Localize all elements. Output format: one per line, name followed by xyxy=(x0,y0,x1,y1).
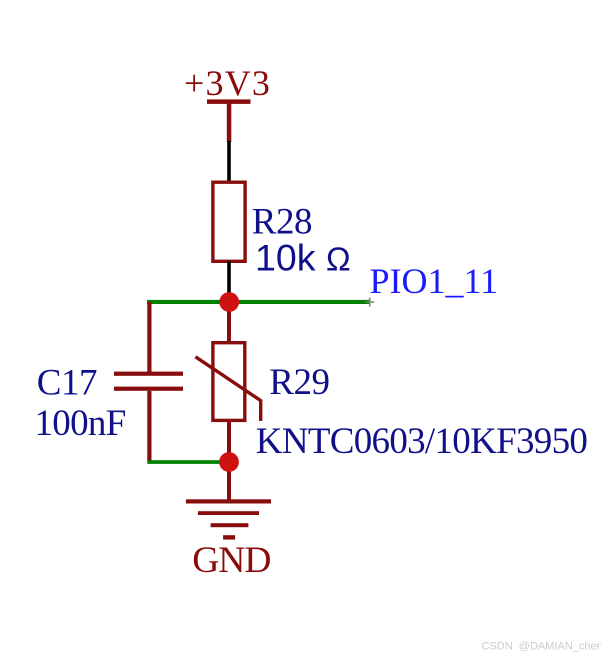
node junction A (top) xyxy=(219,292,239,312)
node junction B (bottom) xyxy=(219,452,239,472)
svg-text:10k: 10k xyxy=(255,237,316,279)
svg-text:+3V3: +3V3 xyxy=(184,63,271,103)
svg-text:R29: R29 xyxy=(269,362,329,403)
wire green net to PIO1_11 xyxy=(147,300,369,304)
power +3V3 bar symbol xyxy=(207,99,251,104)
svg-text:PIO1_11: PIO1_11 xyxy=(370,261,499,301)
wire maroon capacitor bottom stem xyxy=(147,391,151,461)
svg-text:GND: GND xyxy=(192,540,270,581)
ground symbol bar 2 xyxy=(198,511,259,515)
svg-text:100nF: 100nF xyxy=(35,403,126,444)
capacitor C17 bottom plate xyxy=(114,387,183,391)
ground symbol bar 1 xyxy=(186,499,271,503)
svg-text:Ω: Ω xyxy=(326,241,351,278)
svg-text:CSDN @DAMIAN_chen: CSDN @DAMIAN_chen xyxy=(482,641,601,653)
wire maroon (R29 pin 2 to node B) xyxy=(227,420,231,462)
wire maroon capacitor top stem xyxy=(147,302,151,372)
thermistor R29 body xyxy=(213,343,245,421)
wire maroon (node B to ground) xyxy=(227,462,231,500)
svg-text:KNTC0603/10KF3950: KNTC0603/10KF3950 xyxy=(256,421,588,462)
capacitor C17 top plate xyxy=(114,372,183,376)
ground symbol bar 4 xyxy=(223,535,235,539)
ground symbol bar 3 xyxy=(211,523,249,527)
wire black upper (to R28 pin 1) xyxy=(227,141,231,181)
wire black lower (R28 pin 2 to node) xyxy=(227,261,231,296)
wire maroon (node A to R29 pin 1) xyxy=(227,302,231,343)
wire power stem (maroon) xyxy=(227,101,232,142)
svg-text:C17: C17 xyxy=(37,363,97,404)
thermistor R29 diagonal stroke xyxy=(196,357,261,421)
resistor R28 xyxy=(213,182,245,261)
port marker cross at PIO1_11 wire end xyxy=(365,298,374,307)
wire green (capacitor to node B) xyxy=(147,460,229,464)
